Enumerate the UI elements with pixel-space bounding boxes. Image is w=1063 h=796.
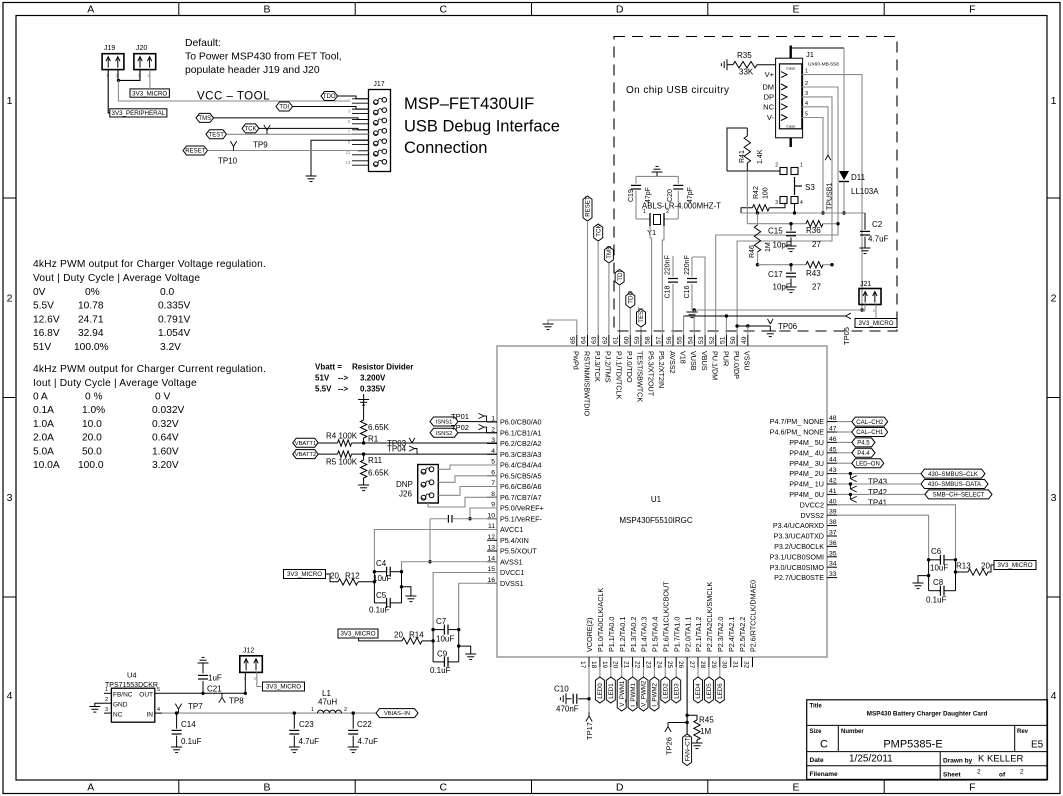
capacitor C15 10pF	[768, 224, 796, 250]
title text MSP-FET430UIF USB Debug Interface Connection	[404, 95, 560, 157]
svg-text:LED5: LED5	[706, 683, 713, 699]
svg-text:430–SMBUS–CLK: 430–SMBUS–CLK	[928, 472, 978, 478]
svg-text:32: 32	[743, 661, 750, 669]
wire VBATT1 to R4	[318, 442, 337, 444]
wire TDI to J17	[293, 107, 369, 110]
svg-text:34: 34	[829, 561, 837, 568]
svg-text:J26: J26	[399, 490, 412, 499]
svg-text:R5 100K: R5 100K	[326, 458, 358, 467]
svg-text:1.054V: 1.054V	[158, 328, 190, 339]
wire U1 pin 11 AVCC1	[374, 530, 497, 572]
power flag 3V3_PERIPHERAL (J19)	[110, 109, 167, 117]
svg-text:0.335V: 0.335V	[360, 385, 386, 394]
svg-text:UX60-MB-5S8: UX60-MB-5S8	[808, 62, 839, 68]
net tag ISNS1	[430, 417, 458, 426]
svg-text:51: 51	[719, 336, 726, 344]
svg-text:Vout | Duty Cycle | Average V: Vout | Duty Cycle | Average Voltage	[33, 273, 200, 284]
svg-text:100: 100	[763, 187, 770, 199]
ground below R11	[358, 485, 369, 491]
svg-text:DVCC2: DVCC2	[800, 500, 824, 509]
svg-text:RESET: RESET	[585, 196, 592, 217]
svg-text:J21: J21	[860, 281, 871, 288]
diode D11 LL103A	[839, 48, 879, 215]
wire J12 pin2 to 3V3_MICRO	[257, 672, 263, 686]
svg-text:4.7uF: 4.7uF	[868, 235, 889, 244]
svg-text:LED–ON: LED–ON	[856, 461, 880, 467]
testpoint TP26	[665, 723, 688, 756]
svg-text:1uF: 1uF	[208, 674, 222, 683]
wire J1 DP	[737, 97, 832, 335]
ground left of C10	[560, 693, 566, 704]
connector J1 UX60-MB-5S8	[762, 46, 839, 148]
svg-text:51V: 51V	[315, 374, 330, 383]
svg-text:26: 26	[677, 661, 684, 669]
wire bus B with TP05	[684, 313, 851, 345]
svg-text:F: F	[969, 782, 975, 794]
svg-text:64: 64	[580, 336, 587, 344]
svg-text:5: 5	[805, 112, 808, 118]
svg-text:R1: R1	[368, 435, 379, 444]
svg-text:C10: C10	[554, 685, 569, 694]
net tag 430-SMBUS-DATA / wire pin 42	[837, 480, 988, 489]
svg-text:D11: D11	[851, 173, 866, 182]
svg-text:I_PWM2: I_PWM2	[652, 683, 659, 707]
svg-text:TP43: TP43	[868, 478, 888, 487]
svg-text:R14: R14	[409, 631, 424, 640]
net tag LED2	[661, 667, 670, 703]
capacitor C6 10uF	[927, 547, 957, 573]
svg-text:47: 47	[829, 426, 837, 433]
svg-text:36: 36	[829, 540, 837, 547]
svg-text:C: C	[440, 4, 448, 16]
svg-text:1: 1	[7, 95, 13, 107]
svg-text:27: 27	[688, 661, 695, 669]
svg-text:C: C	[440, 782, 448, 794]
net tag LED0	[595, 667, 604, 703]
svg-text:P4.5: P4.5	[857, 441, 870, 447]
svg-text:3V3_MICRO: 3V3_MICRO	[266, 684, 301, 691]
svg-text:24.71: 24.71	[78, 314, 104, 325]
net tag TCK	[242, 124, 259, 133]
dashed box: on chip USB circuitry	[614, 37, 897, 332]
svg-text:P1.6/TA1CLK/CBOUT: P1.6/TA1CLK/CBOUT	[662, 581, 671, 652]
svg-text:Size: Size	[810, 729, 823, 735]
wire J1 NC / testpoint TPUSB1	[802, 107, 834, 210]
svg-text:6.65K: 6.65K	[368, 469, 390, 478]
svg-text:0.1A: 0.1A	[33, 405, 54, 416]
svg-text:0.1uF: 0.1uF	[430, 666, 451, 675]
resistor R11 6.65K	[360, 454, 389, 485]
svg-text:1/25/2011: 1/25/2011	[849, 754, 893, 765]
svg-text:20: 20	[612, 661, 619, 669]
svg-text:3: 3	[1051, 492, 1057, 504]
svg-text:R13: R13	[956, 562, 971, 571]
svg-text:R12: R12	[345, 572, 360, 581]
capacitor C5 0.1uF	[369, 591, 402, 615]
svg-text:P2.7/UCB0STE: P2.7/UCB0STE	[774, 573, 824, 582]
svg-text:PJ.1/TDI/TCLK: PJ.1/TDI/TCLK	[614, 351, 623, 400]
svg-text:R41: R41	[739, 150, 746, 163]
svg-text:53: 53	[698, 336, 705, 344]
wire J1 V+ to rail	[802, 75, 864, 312]
wire R5 to U1 pin 4 (TP04 net)	[352, 452, 497, 455]
net tag TDO	[321, 92, 338, 101]
svg-text:5.0A: 5.0A	[33, 446, 54, 457]
svg-text:IN: IN	[147, 712, 154, 719]
svg-text:1: 1	[800, 163, 803, 169]
svg-text:OUT: OUT	[139, 692, 153, 699]
wire TP06 line	[735, 324, 770, 327]
capacitor C21 1uF with ground above	[198, 657, 223, 693]
svg-text:PJ.2/TMS: PJ.2/TMS	[604, 351, 613, 383]
svg-text:1: 1	[1051, 95, 1057, 107]
resistor R45 1M	[687, 715, 714, 743]
wire J21 pin2 to 3V3_MICRO	[875, 305, 877, 319]
svg-text:10.0A: 10.0A	[33, 460, 60, 471]
net tag LED1	[606, 667, 615, 703]
wire RESET to J17 with TP10	[208, 150, 369, 152]
svg-text:32.94: 32.94	[78, 328, 104, 339]
svg-text:ISNS1: ISNS1	[436, 420, 453, 426]
svg-text:B: B	[263, 782, 270, 794]
svg-text:RESET: RESET	[185, 149, 205, 155]
svg-text:39: 39	[829, 509, 837, 516]
svg-text:TP26: TP26	[665, 737, 674, 755]
wire J26 to U1 pin 7	[438, 487, 497, 496]
wire VBATT2 to R5	[318, 453, 337, 455]
svg-text:R36: R36	[806, 226, 821, 235]
capacitor C2 4.7uF	[860, 213, 889, 248]
svg-text:C9: C9	[437, 650, 448, 659]
wire J26 to U1 pin 8	[428, 497, 497, 507]
svg-text:10pF: 10pF	[773, 241, 791, 250]
svg-text:20: 20	[330, 572, 339, 581]
testpoint TP03	[387, 438, 415, 448]
testpoint TP9	[253, 125, 270, 150]
svg-text:TP17: TP17	[585, 722, 594, 740]
svg-text:P2.2/TA2CLK/SMCLK: P2.2/TA2CLK/SMCLK	[705, 582, 714, 652]
svg-text:C6: C6	[931, 547, 942, 556]
svg-text:3V3_MICRO: 3V3_MICRO	[340, 631, 375, 638]
svg-text:TP01: TP01	[451, 412, 469, 421]
svg-text:P3.3/UCA0TXD: P3.3/UCA0TXD	[774, 532, 824, 541]
svg-text:2: 2	[7, 293, 13, 305]
svg-text:R45: R45	[699, 716, 714, 725]
svg-text:VBATT1: VBATT1	[295, 441, 316, 447]
svg-text:41: 41	[829, 488, 837, 495]
svg-text:P1.7/TA1.0: P1.7/TA1.0	[672, 617, 681, 652]
svg-text:P6.5/CB5/A5: P6.5/CB5/A5	[500, 471, 542, 480]
power flag 3V3_MICRO (J12)	[263, 682, 305, 691]
svg-text:VUSB: VUSB	[689, 351, 698, 371]
svg-text:50: 50	[730, 336, 737, 344]
svg-text:100.0%: 100.0%	[74, 342, 109, 353]
svg-text:E: E	[792, 782, 799, 794]
svg-text:0 V: 0 V	[155, 392, 170, 403]
svg-text:Filename: Filename	[810, 771, 839, 778]
svg-text:of: of	[999, 772, 1006, 779]
svg-text:P6.7/CB7/A7: P6.7/CB7/A7	[500, 493, 542, 502]
switch S3	[775, 163, 815, 215]
ground at J17	[306, 176, 317, 182]
wire U1 pin 65 PwPd to ground	[548, 320, 577, 335]
svg-text:P1.2/TA0.1: P1.2/TA0.1	[618, 617, 627, 652]
ground above crystal	[652, 166, 663, 176]
wire to switch S3	[727, 170, 780, 172]
svg-text:TPUSB1: TPUSB1	[827, 183, 834, 210]
svg-text:TP9: TP9	[253, 141, 268, 150]
svg-text:10uF: 10uF	[436, 635, 454, 644]
svg-text:TCK: TCK	[245, 127, 257, 133]
svg-text:VBATT2: VBATT2	[295, 452, 316, 458]
svg-text:P6.6/CB6/A6: P6.6/CB6/A6	[500, 482, 542, 491]
svg-text:3: 3	[7, 492, 13, 504]
svg-text:4: 4	[805, 101, 808, 107]
svg-text:PP4M_ 5U: PP4M_ 5U	[789, 438, 824, 447]
svg-text:Case: Case	[786, 124, 796, 129]
net tag TEST	[206, 130, 227, 139]
svg-text:J20: J20	[136, 45, 147, 52]
ground below C23	[289, 747, 300, 753]
svg-text:3.200V: 3.200V	[360, 374, 386, 383]
svg-text:P6.0/CB0/A0: P6.0/CB0/A0	[500, 418, 542, 427]
net tag LED5	[704, 667, 713, 703]
wire ISNS2 to U1 pin 2	[458, 432, 497, 434]
svg-text:62: 62	[602, 336, 609, 344]
svg-text:4: 4	[7, 690, 13, 702]
ground at PwPd	[543, 324, 554, 330]
header J12	[240, 648, 262, 682]
svg-text:J12: J12	[243, 648, 254, 655]
svg-text:5: 5	[348, 119, 351, 124]
net label VCC - TOOL	[197, 91, 270, 103]
svg-text:D: D	[616, 4, 624, 16]
svg-text:10.78: 10.78	[78, 301, 104, 312]
svg-text:2: 2	[977, 769, 981, 776]
svg-text:-->: -->	[338, 374, 348, 383]
svg-text:2: 2	[344, 707, 347, 713]
resistor R42 100	[741, 186, 785, 213]
testpoint TP10	[218, 141, 238, 166]
svg-text:2: 2	[1020, 769, 1024, 776]
svg-text:21: 21	[623, 661, 630, 669]
testpoint TP42	[850, 484, 887, 497]
microcontroller U1 MSP430F5510IRGC body	[497, 346, 827, 657]
svg-text:P2.3/TA2.0: P2.3/TA2.0	[716, 617, 725, 652]
svg-text:PP4M_ 0U: PP4M_ 0U	[789, 490, 824, 499]
svg-text:3V3_MICRO: 3V3_MICRO	[132, 90, 167, 97]
testpoint TP7	[175, 702, 203, 713]
rails for C6 C8	[929, 560, 956, 591]
svg-text:10.0: 10.0	[82, 419, 102, 430]
wire U4 IN rail	[162, 712, 376, 714]
svg-text:MSP430F5510IRGC: MSP430F5510IRGC	[619, 516, 693, 525]
U1 bottom pins 17-32	[579, 580, 758, 669]
svg-text:DM: DM	[762, 83, 774, 92]
svg-text:K KELLER: K KELLER	[978, 754, 1024, 765]
svg-text:30: 30	[721, 661, 728, 669]
capacitor C7 10uF	[431, 617, 460, 644]
svg-text:1M: 1M	[765, 242, 772, 252]
U1 left pins 1-16	[487, 416, 544, 588]
svg-text:2: 2	[666, 209, 669, 215]
svg-text:Default:: Default:	[185, 38, 221, 49]
svg-text:3.2V: 3.2V	[160, 342, 181, 353]
svg-text:C: C	[820, 739, 828, 751]
svg-text:P6.1/CB1/A1: P6.1/CB1/A1	[500, 428, 542, 437]
svg-text:23: 23	[644, 661, 651, 669]
ground at C16	[687, 312, 698, 318]
testpoint TP17	[585, 712, 594, 740]
ground at U4 GND pin	[89, 703, 104, 712]
net tag V_PWM2	[639, 667, 648, 711]
svg-text:51V: 51V	[33, 342, 51, 353]
svg-text:P4.7/PM_ NONE: P4.7/PM_ NONE	[770, 417, 825, 426]
svg-text:2: 2	[1051, 293, 1057, 305]
svg-text:VCORE(2): VCORE(2)	[585, 618, 594, 652]
svg-text:5: 5	[157, 687, 160, 693]
svg-text:E: E	[792, 4, 799, 16]
svg-text:20.0: 20.0	[82, 433, 102, 444]
capacitor C9 0.1uF	[430, 650, 459, 676]
svg-text:3.20V: 3.20V	[152, 460, 179, 471]
svg-text:Sheet: Sheet	[943, 772, 962, 779]
net tag SMB-CH-SELECT / wire pin 41	[837, 490, 992, 499]
svg-text:LED6: LED6	[717, 683, 724, 699]
svg-text:AVSS1: AVSS1	[500, 557, 523, 566]
svg-text:13: 13	[487, 545, 495, 552]
wire J26 to U1 pin 5	[438, 465, 497, 469]
svg-text:0%: 0%	[85, 287, 100, 298]
inductor L1 47uH	[311, 689, 347, 713]
svg-text:GND: GND	[113, 702, 128, 709]
svg-text:NC: NC	[113, 712, 123, 719]
svg-text:C18: C18	[665, 286, 672, 299]
wire TMS to J17	[214, 118, 369, 120]
svg-text:3: 3	[105, 707, 108, 713]
svg-text:V_PWM2: V_PWM2	[641, 680, 648, 707]
wire 3V3 rail to J21 (bus A)	[692, 308, 865, 311]
svg-text:P5.1/VeREF-: P5.1/VeREF-	[500, 514, 543, 523]
svg-text:P4.4: P4.4	[857, 451, 870, 457]
svg-text:TDO: TDO	[323, 94, 336, 100]
svg-text:0.1uF: 0.1uF	[181, 737, 202, 746]
svg-text:V_PWM1: V_PWM1	[619, 680, 626, 707]
svg-text:1.0A: 1.0A	[33, 419, 54, 430]
svg-text:P1.3/TA0.2: P1.3/TA0.2	[629, 617, 638, 652]
svg-text:P5.3/XT2OUT: P5.3/XT2OUT	[646, 351, 655, 397]
svg-text:PP4M_ 2U: PP4M_ 2U	[789, 469, 824, 478]
svg-text:220nF: 220nF	[684, 255, 691, 275]
svg-text:470nF: 470nF	[556, 705, 579, 714]
testpoint TP06 with ground	[765, 319, 798, 337]
svg-text:4: 4	[157, 707, 160, 713]
svg-text:P1.1/TA0.0: P1.1/TA0.0	[607, 617, 616, 652]
resistor R13 20	[954, 562, 994, 576]
capacitor C19 47pF	[628, 176, 678, 219]
svg-text:16.8V: 16.8V	[33, 328, 60, 339]
crystal Y1 ABLS-LR-4.000MHZ-T	[636, 202, 721, 238]
capacitor C20 47pF	[667, 176, 694, 219]
svg-text:0 %: 0 %	[85, 392, 103, 403]
svg-text:0.32V: 0.32V	[152, 419, 179, 430]
svg-text:19: 19	[601, 661, 608, 669]
svg-text:DVSS2: DVSS2	[800, 511, 824, 520]
svg-text:58: 58	[645, 336, 652, 344]
ground branch C4/C5	[400, 585, 417, 602]
svg-text:4kHz PWM output for Charger Cu: 4kHz PWM output for Charger Current regu…	[33, 364, 266, 375]
svg-text:0.335V: 0.335V	[158, 301, 190, 312]
svg-text:Drawn by: Drawn by	[943, 758, 973, 765]
net tag TDO (vertical)	[626, 291, 635, 335]
header J21	[859, 281, 881, 314]
wire TEST to J17 with TP9	[227, 133, 369, 135]
svg-text:1.4K: 1.4K	[757, 149, 764, 164]
svg-text:R46: R46	[749, 245, 756, 258]
svg-text:TEST: TEST	[638, 307, 645, 323]
wire V- rail horizontal	[741, 212, 865, 214]
svg-text:25: 25	[666, 661, 673, 669]
resistor R46 1M (vertical)	[749, 211, 772, 266]
svg-text:ABLS-LR-4.000MHZ-T: ABLS-LR-4.000MHZ-T	[642, 202, 721, 211]
svg-text:P2.5/TA2.2: P2.5/TA2.2	[738, 617, 747, 652]
svg-text:P2.6/RTCCLK/DMAE0: P2.6/RTCCLK/DMAE0	[749, 580, 758, 652]
header J19	[102, 45, 124, 79]
power flag 3V3_MICRO (J20)	[130, 89, 169, 97]
capacitor C8 0.1uF	[926, 578, 956, 605]
capacitor C23 4.7uF	[289, 711, 319, 747]
svg-text:Resistor Divider: Resistor Divider	[352, 363, 413, 372]
svg-text:0V: 0V	[33, 287, 46, 298]
svg-text:LED2: LED2	[663, 683, 670, 699]
svg-text:TP02: TP02	[451, 423, 469, 432]
wire U4 OUT rail	[162, 692, 245, 695]
svg-text:PP4M_ 3U: PP4M_ 3U	[789, 459, 824, 468]
svg-text:C2: C2	[872, 220, 883, 229]
svg-text:NC: NC	[763, 102, 774, 111]
svg-text:1: 1	[311, 707, 314, 713]
svg-text:8: 8	[491, 491, 495, 498]
svg-text:5.5V: 5.5V	[33, 301, 54, 312]
testpoint TP02	[451, 423, 487, 433]
svg-text:R43: R43	[806, 269, 821, 278]
svg-text:31: 31	[732, 661, 739, 669]
net tag TEST (vertical)	[637, 307, 646, 335]
svg-text:RST/NMI/SBWTDIO: RST/NMI/SBWTDIO	[582, 351, 591, 416]
net tag RESET	[183, 146, 208, 155]
wire TCK to J17	[259, 128, 369, 129]
ground below C17	[786, 287, 797, 293]
svg-text:FB/NC: FB/NC	[113, 692, 133, 699]
svg-text:63: 63	[591, 336, 598, 344]
resistor R43 27	[806, 262, 834, 292]
net tag LED4	[694, 667, 703, 703]
net tag CAL-CH1	[837, 428, 888, 437]
svg-text:C21: C21	[207, 685, 222, 694]
ground branch C7/C9	[457, 644, 476, 659]
ground below C14	[171, 747, 182, 753]
testpoint TP04	[387, 445, 417, 455]
svg-text:TDI: TDI	[617, 271, 624, 281]
U1 top pins 65-49	[570, 335, 752, 416]
svg-text:Vbatt =: Vbatt =	[315, 363, 342, 372]
net tag LED6	[715, 667, 724, 703]
net tag VBATT2	[293, 450, 319, 459]
svg-text:U1: U1	[651, 495, 662, 504]
net tag RESET (vertical)	[583, 196, 592, 335]
svg-text:2: 2	[775, 163, 778, 169]
svg-text:PwPd: PwPd	[572, 351, 581, 370]
